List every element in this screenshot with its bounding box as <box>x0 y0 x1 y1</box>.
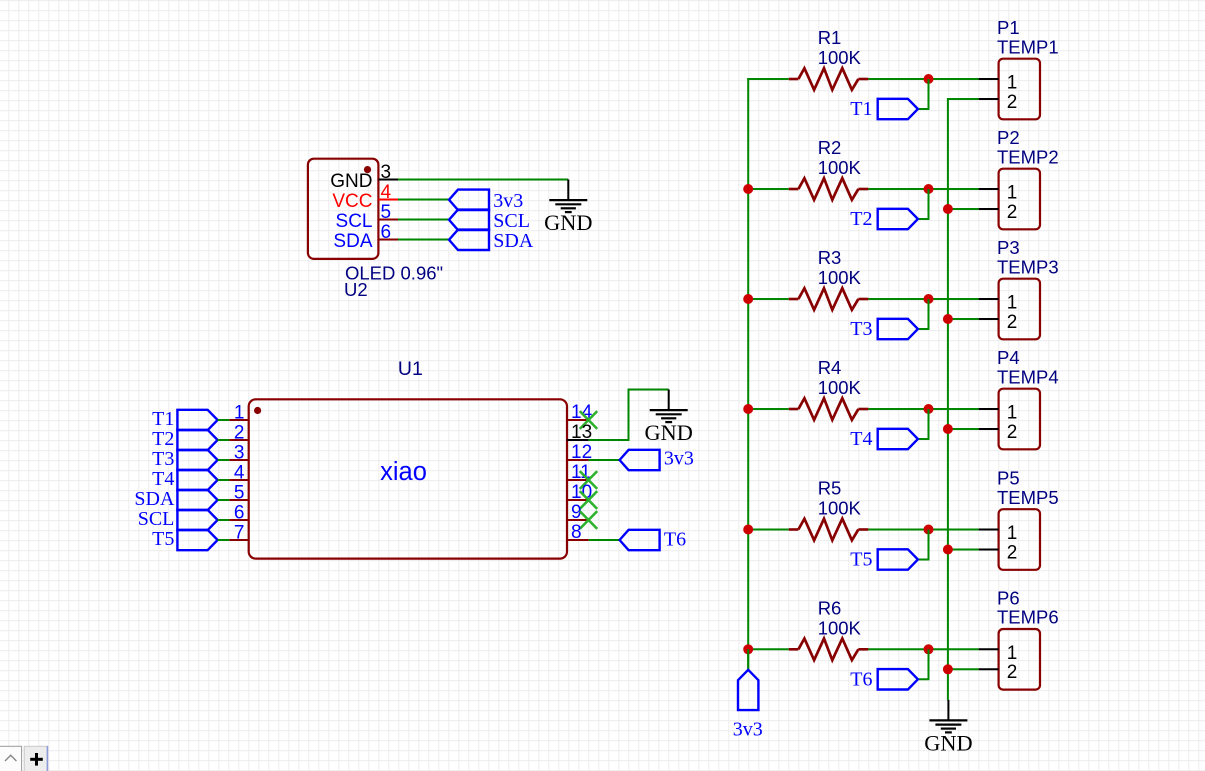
net flag 3v3 at U1 <box>620 448 694 471</box>
P2 pin 1 stub <box>979 188 999 190</box>
svg-text:SCL: SCL <box>138 508 175 530</box>
svg-text:SDA: SDA <box>333 231 372 252</box>
wire junction to T2 flag <box>918 189 929 219</box>
wire R5 to connector P5 pin 1 <box>868 529 978 531</box>
U1 pin 12 <box>567 442 592 463</box>
ground GND symbol near U2 <box>544 180 592 236</box>
junction on 3v3 bus at R4 <box>743 404 753 414</box>
net flag 3v3 at U2 <box>449 190 523 212</box>
junction at R3/T3 node <box>924 294 934 304</box>
junction on 3v3 bus at R2 <box>743 184 753 194</box>
svg-text:2: 2 <box>1007 422 1018 443</box>
junction on 3v3 bus at R5 <box>743 525 753 535</box>
net flag T6 <box>850 669 918 691</box>
svg-text:P4: P4 <box>997 347 1020 368</box>
connector P6 TEMP6 <box>997 587 1059 689</box>
svg-text:T1: T1 <box>850 98 872 120</box>
label U1 designator <box>398 358 423 380</box>
svg-text:2: 2 <box>1007 662 1018 683</box>
svg-text:SDA: SDA <box>134 488 175 510</box>
svg-text:T4: T4 <box>152 468 174 490</box>
svg-text:T2: T2 <box>850 208 872 230</box>
wire R2 to connector P2 pin 1 <box>868 188 978 190</box>
svg-text:2: 2 <box>1007 202 1018 223</box>
P4 pin 1 stub <box>979 408 999 410</box>
wire 3v3 bus to resistor R6 <box>747 648 789 650</box>
svg-text:1: 1 <box>1007 403 1018 424</box>
svg-text:6: 6 <box>234 503 245 524</box>
svg-text:T5: T5 <box>152 528 174 550</box>
svg-text:100K: 100K <box>818 267 862 288</box>
svg-text:R1: R1 <box>818 27 842 48</box>
svg-text:2: 2 <box>1007 312 1018 333</box>
wire U2 pin6 to SDA flag <box>398 239 449 241</box>
svg-text:2: 2 <box>234 423 245 444</box>
svg-text:T6: T6 <box>850 669 872 691</box>
svg-text:GND: GND <box>924 730 972 755</box>
resistor R3 100K <box>789 247 869 310</box>
wire 3v3 vertical bus (left) <box>747 79 749 669</box>
junction on 3v3 bus at R6 <box>743 644 753 654</box>
UI scroll button chevron (bottom-left) <box>0 746 22 771</box>
net flag T5 <box>850 549 918 571</box>
U1 pin 4 with net flag T4 <box>152 463 249 491</box>
U1 pin 3 with net flag T3 <box>152 443 249 471</box>
P6 pin 2 stub <box>979 668 999 670</box>
IC U2 OLED 0.96" symbol body <box>308 159 379 259</box>
junction on GND bus at P3 pin 2 <box>943 314 953 324</box>
UI zoom-in button (bottom-left) <box>24 746 47 771</box>
wire junction to T5 flag <box>918 530 929 560</box>
svg-text:100K: 100K <box>818 377 862 398</box>
wire U2 pin4 to 3v3 flag <box>398 199 449 201</box>
junction on GND bus at P4 pin 2 <box>943 424 953 434</box>
svg-text:3v3: 3v3 <box>664 448 694 470</box>
svg-text:R3: R3 <box>818 247 842 268</box>
svg-text:U2: U2 <box>344 279 368 300</box>
svg-text:2: 2 <box>1007 542 1018 563</box>
svg-text:3: 3 <box>234 443 245 464</box>
net flag SCL at U2 <box>449 210 530 232</box>
svg-text:R2: R2 <box>818 137 842 158</box>
wire GND bus to P4 pin 2 <box>947 428 979 430</box>
P3 pin 1 stub <box>979 298 999 300</box>
svg-text:P5: P5 <box>997 468 1020 489</box>
resistor R2 100K <box>789 137 869 200</box>
wire GND bus to P6 pin 2 <box>947 668 979 670</box>
no-connect X on U1 pin 11 <box>580 471 597 489</box>
svg-text:R6: R6 <box>818 597 842 618</box>
P5 pin 2 stub <box>979 549 999 551</box>
svg-text:R4: R4 <box>818 357 842 378</box>
wire R1 to connector P1 pin 1 <box>868 78 978 80</box>
wire GND bus to P3 pin 2 <box>947 318 979 320</box>
wire 3v3 bus to resistor R3 <box>747 298 789 300</box>
wire R6 to connector P6 pin 1 <box>868 648 978 650</box>
junction at R5/T5 node <box>924 525 934 535</box>
wire junction to T1 flag <box>918 79 929 109</box>
net flag T1 <box>850 98 918 120</box>
IC U1 xiao symbol body <box>249 399 567 558</box>
P1 pin 2 stub <box>979 98 999 100</box>
no-connect X on U1 pin 10 <box>580 491 597 509</box>
svg-text:T2: T2 <box>152 428 174 450</box>
wire junction to T6 flag <box>918 649 929 679</box>
ground GND symbol at bottom of bus <box>924 700 972 756</box>
svg-text:P1: P1 <box>997 17 1020 38</box>
no-connect X on U1 pin 9 <box>580 511 597 529</box>
connector P4 TEMP4 <box>997 347 1059 449</box>
svg-text:xiao: xiao <box>380 458 427 486</box>
connector P3 TEMP3 <box>997 237 1059 339</box>
svg-text:SDA: SDA <box>493 230 534 252</box>
P6 pin 1 stub <box>979 648 999 650</box>
wire U2 pin3 to GND symbol <box>398 179 568 181</box>
svg-text:TEMP2: TEMP2 <box>997 146 1059 167</box>
net flag SDA at U2 <box>449 230 534 252</box>
svg-text:T6: T6 <box>664 528 686 550</box>
wire GND vertical bus (right) <box>947 99 949 700</box>
wire 3v3 bus to resistor R5 <box>747 529 789 531</box>
U1 pin 10 <box>567 482 592 503</box>
svg-text:GND: GND <box>544 210 592 235</box>
junction at R4/T4 node <box>924 404 934 414</box>
junction at R6/T6 node <box>924 644 934 654</box>
resistor R5 100K <box>789 478 869 541</box>
svg-text:3v3: 3v3 <box>493 190 523 212</box>
svg-text:100K: 100K <box>818 47 862 68</box>
wire 3v3 bus to resistor R4 <box>747 408 789 410</box>
U2 pin 6 (SDA) <box>333 222 398 252</box>
svg-text:7: 7 <box>234 523 245 544</box>
wire junction to T3 flag <box>918 299 929 329</box>
svg-text:VCC: VCC <box>332 191 372 212</box>
svg-text:1: 1 <box>1007 293 1018 314</box>
svg-text:1: 1 <box>234 403 245 424</box>
wire U2 pin5 to SCL flag <box>398 219 449 221</box>
wire GND bus to P5 pin 2 <box>947 549 979 551</box>
connector P1 TEMP1 <box>997 17 1059 119</box>
svg-text:TEMP1: TEMP1 <box>997 36 1059 57</box>
junction on 3v3 bus at R3 <box>743 294 753 304</box>
svg-text:5: 5 <box>234 483 245 504</box>
U1 pin 9 <box>567 502 589 523</box>
P5 pin 1 stub <box>979 529 999 531</box>
svg-text:TEMP3: TEMP3 <box>997 256 1059 277</box>
wire R4 to connector P4 pin 1 <box>868 408 978 410</box>
U1 pin 5 with net flag SDA <box>134 483 248 511</box>
svg-text:8: 8 <box>571 522 582 543</box>
wire GND bus to P1 pin 2 <box>947 98 979 100</box>
wire junction to T4 flag <box>918 409 929 439</box>
connector P2 TEMP2 <box>997 127 1059 229</box>
resistor R1 100K <box>789 27 869 90</box>
resistor R4 100K <box>789 357 869 420</box>
svg-text:1: 1 <box>1007 643 1018 664</box>
U2 pin 3 (GND) <box>330 162 398 192</box>
svg-text:T5: T5 <box>850 549 872 571</box>
svg-text:T4: T4 <box>850 428 872 450</box>
wire GND bus to P2 pin 2 <box>947 208 979 210</box>
svg-text:SCL: SCL <box>336 211 373 232</box>
svg-text:U1: U1 <box>398 358 423 380</box>
wire U1 pin13 to GND symbol <box>589 390 669 441</box>
U1 pin 1 with net flag T1 <box>152 403 249 431</box>
svg-text:TEMP6: TEMP6 <box>997 607 1059 628</box>
junction on GND bus at P6 pin 2 <box>943 664 953 674</box>
U1 pin 6 with net flag SCL <box>138 503 249 531</box>
net flag T6 at U1 <box>620 528 687 550</box>
U2 pin 5 (SCL) <box>336 202 398 232</box>
resistor R6 100K <box>789 597 869 660</box>
svg-text:P2: P2 <box>997 127 1020 148</box>
power flag 3v3 at bottom of bus <box>733 649 763 740</box>
svg-text:P3: P3 <box>997 237 1020 258</box>
U1 pin 2 with net flag T2 <box>152 423 249 451</box>
svg-text:1: 1 <box>1007 73 1018 94</box>
svg-text:T1: T1 <box>152 408 174 430</box>
U1 pin 14 <box>567 402 593 423</box>
P1 pin 1 stub <box>979 78 999 80</box>
svg-text:1: 1 <box>1007 183 1018 204</box>
svg-text:3v3: 3v3 <box>733 719 763 741</box>
svg-text:SCL: SCL <box>493 210 530 232</box>
svg-text:GND: GND <box>330 171 372 192</box>
P3 pin 2 stub <box>979 318 999 320</box>
svg-text:100K: 100K <box>818 157 862 178</box>
U1 pin 8 <box>567 522 589 543</box>
net flag T2 <box>850 208 918 230</box>
junction on GND bus at P5 pin 2 <box>943 545 953 555</box>
svg-text:100K: 100K <box>818 617 862 638</box>
svg-text:100K: 100K <box>818 498 862 519</box>
wire U1 pin8 to T6 flag <box>589 539 620 541</box>
svg-text:TEMP4: TEMP4 <box>997 366 1059 387</box>
P2 pin 2 stub <box>979 208 999 210</box>
svg-text:1: 1 <box>1007 523 1018 544</box>
junction on GND bus at P2 pin 2 <box>943 204 953 214</box>
U1 pin 11 <box>567 462 591 483</box>
net flag T4 <box>850 428 918 450</box>
svg-text:R5: R5 <box>818 478 842 499</box>
wire 3v3 bus to resistor R1 <box>747 78 789 80</box>
connector P5 TEMP5 <box>997 468 1059 570</box>
svg-text:4: 4 <box>234 463 245 484</box>
P4 pin 2 stub <box>979 428 999 430</box>
svg-text:T3: T3 <box>850 318 872 340</box>
svg-text:T3: T3 <box>152 448 174 470</box>
junction at R2/T2 node <box>924 184 934 194</box>
ground GND symbol near U1 <box>645 390 693 446</box>
U1 pin 13 <box>567 422 592 443</box>
wire U1 pin12 to 3v3 flag <box>589 459 620 461</box>
no-connect X on U1 pin 14 <box>580 411 597 429</box>
U1 pin 7 with net flag T5 <box>152 523 249 551</box>
svg-text:2: 2 <box>1007 92 1018 113</box>
label U2 designator <box>344 279 368 300</box>
svg-text:GND: GND <box>645 420 693 445</box>
wire R3 to connector P3 pin 1 <box>868 298 978 300</box>
U2 pin 4 (VCC) <box>332 182 398 212</box>
label U2 value OLED 0.96" <box>345 263 443 284</box>
svg-text:P6: P6 <box>997 587 1020 608</box>
junction at R1/T1 node <box>924 74 934 84</box>
wire 3v3 bus to resistor R2 <box>747 188 789 190</box>
svg-text:TEMP5: TEMP5 <box>997 487 1059 508</box>
net flag T3 <box>850 318 918 340</box>
